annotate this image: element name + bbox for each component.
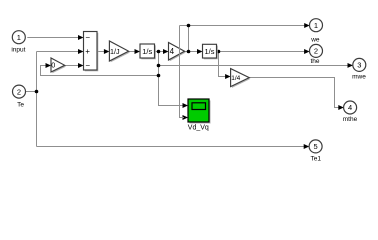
arrowhead into scope bottom input (183, 115, 189, 120)
junction node feedback branch (157, 74, 161, 78)
scope Vd_Vq shadow (190, 101, 211, 124)
arrowhead into output port mthe (338, 105, 344, 110)
arrowhead into gain 1/4 (225, 74, 231, 79)
gain 1/4 shadow (232, 70, 251, 88)
svg-text:1/s: 1/s (204, 47, 214, 56)
svg-text:mwe: mwe (352, 74, 366, 81)
output port 1 circle (310, 19, 323, 32)
sum block shadow (85, 33, 99, 72)
arrowhead into sum top input (78, 35, 84, 40)
svg-text:−: − (85, 61, 90, 70)
junction node mwe branch (157, 64, 161, 68)
wire feedback to gain 0 (41, 66, 159, 76)
svg-text:we: we (310, 37, 320, 44)
input port 2 circle (13, 85, 26, 98)
gain 1/4 triangle (231, 69, 250, 87)
arrowhead into gain 4 (163, 49, 169, 54)
gain 4 shadow (170, 44, 186, 62)
arrowhead into integrator 1/s (135, 49, 141, 54)
wire gain 4 to integrator 1/s second (185, 51, 199, 53)
wire integrator 1/s to gain 4 (155, 51, 165, 53)
wire Te trunk to sum middle input (37, 51, 81, 53)
integrator second 1/s block (203, 44, 217, 58)
arrowhead into gain 0 (46, 63, 52, 68)
junction node the output (217, 50, 221, 54)
arrowhead into sum middle input (78, 49, 84, 54)
arrowhead into gain 1/J (104, 49, 110, 54)
wire we rail down to scope bottom input (180, 26, 185, 118)
wire node w to output port mwe (159, 65, 349, 67)
wire gain 1/4 to output port mthe (249, 78, 339, 108)
output port 2 circle (310, 44, 323, 57)
output port 3 circle (353, 58, 366, 71)
wire gain 4 output up to we rail (188, 26, 190, 52)
svg-text:3: 3 (357, 61, 361, 70)
svg-text:4: 4 (348, 103, 352, 112)
gain 4 triangle (169, 43, 185, 61)
wire gain 1/J to integrator 1/s (129, 51, 136, 53)
output port 5 circle (309, 140, 322, 153)
svg-text:mthe: mthe (343, 116, 358, 123)
wire input port Te to junction (25, 91, 36, 93)
junction node we rail (187, 24, 191, 28)
wire node w branch down to scope top input (159, 52, 185, 106)
gain 0 triangle (51, 58, 65, 72)
svg-text:−: − (85, 33, 90, 42)
wire sum output to gain 1/J (97, 51, 106, 53)
svg-text:1/s: 1/s (142, 47, 152, 56)
wire gain 0 to sum bottom input (65, 65, 80, 67)
svg-text:Vd_Vq: Vd_Vq (188, 124, 209, 131)
svg-text:4: 4 (170, 47, 175, 56)
gain 1/J triangle (109, 41, 128, 61)
junction node after integrator 1/s (157, 50, 161, 54)
wire the branch down to gain 1/4 (219, 52, 227, 77)
scope Vd_Vq block (188, 99, 209, 122)
arrowhead into scope top input (183, 103, 189, 108)
svg-text:1: 1 (17, 33, 21, 42)
gain 1/J shadow (111, 42, 130, 62)
svg-text:1/J: 1/J (110, 47, 120, 56)
arrowhead into output port the (304, 49, 310, 54)
arrowhead into sum bottom input (78, 63, 84, 68)
svg-text:2: 2 (314, 47, 318, 56)
svg-text:5: 5 (314, 142, 318, 151)
arrowhead into output port we (304, 23, 310, 28)
integrator 1/s block (140, 44, 155, 58)
svg-text:0: 0 (51, 61, 55, 70)
svg-text:the: the (310, 58, 319, 65)
scope Vd_Vq screen (192, 103, 206, 110)
wire integrator second to output port the (217, 51, 305, 53)
sum block (84, 32, 98, 71)
output port 4 circle (344, 101, 357, 114)
junction node gain 4 output (187, 50, 191, 54)
integrator 1/s shadow (141, 45, 156, 59)
integrator second 1/s shadow (204, 46, 218, 60)
junction node Te trunk (35, 90, 39, 94)
svg-text:2: 2 (17, 87, 21, 96)
input port 1 circle (12, 31, 25, 44)
svg-text:Te1: Te1 (311, 156, 322, 163)
wire we rail to output port we (180, 25, 306, 27)
svg-text:1: 1 (314, 21, 318, 30)
svg-text:+: + (85, 47, 90, 56)
wire Te trunk to output port Te1 (37, 146, 306, 148)
arrowhead into output port Te1 (304, 144, 310, 149)
arrowhead into integrator 1/s second (197, 49, 203, 54)
svg-text:input: input (11, 46, 25, 53)
wire Te vertical trunk (36, 52, 38, 147)
svg-text:1/4: 1/4 (231, 75, 240, 82)
arrowhead into output port mwe (348, 63, 354, 68)
svg-text:Te: Te (17, 102, 24, 109)
wire input port1 to sum top input (27, 37, 80, 39)
gain 0 shadow (52, 59, 66, 73)
